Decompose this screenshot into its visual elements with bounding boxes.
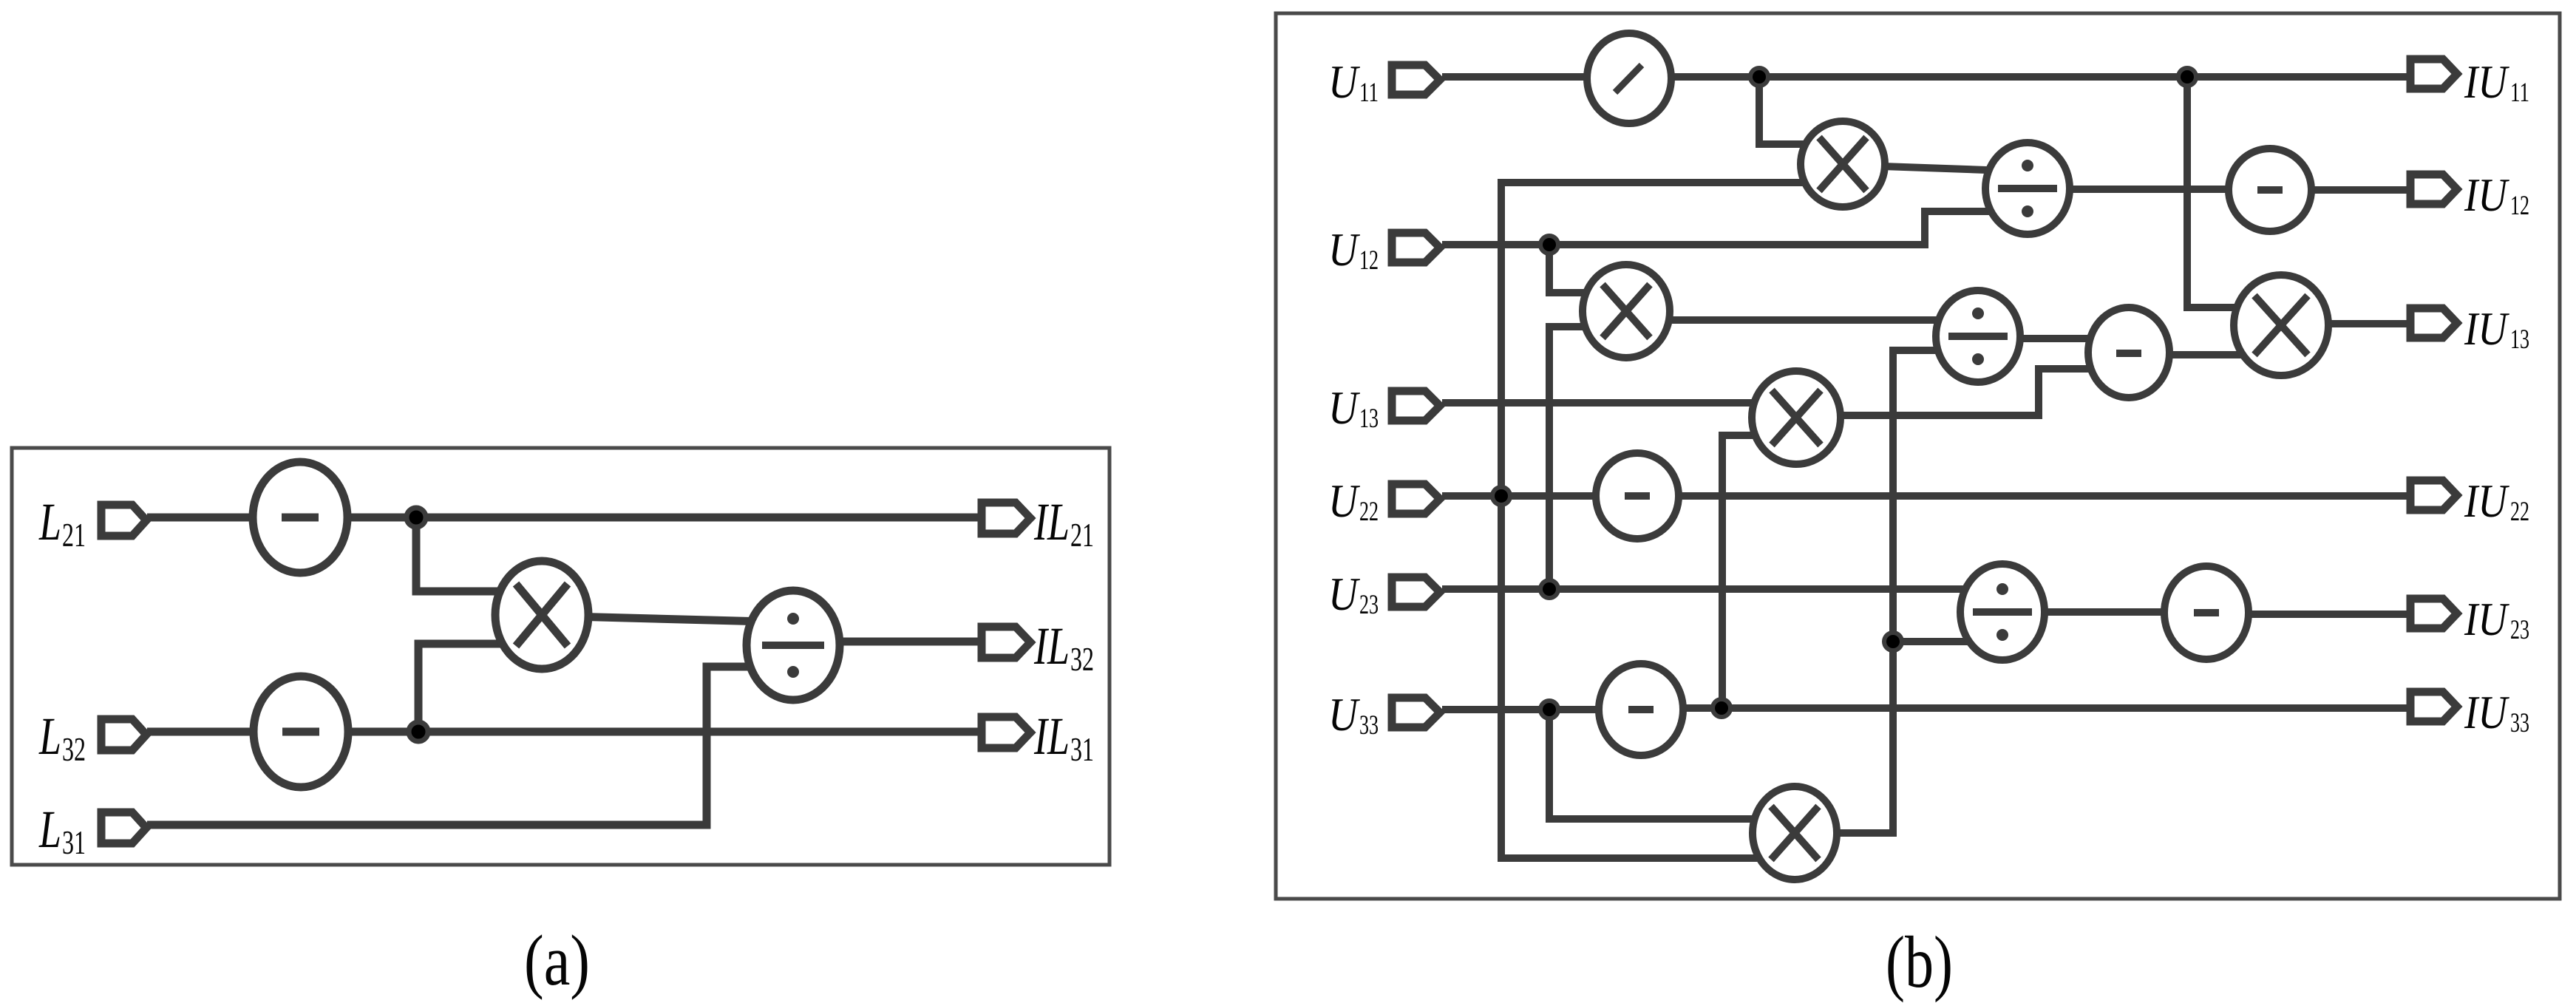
op minus B7	[2088, 307, 2169, 398]
label IU12	[2464, 169, 2529, 221]
input tag U33	[1392, 698, 1440, 727]
junction node U22	[1492, 487, 1510, 505]
junction node U23	[1540, 580, 1558, 598]
op multiplier B2	[1801, 121, 1885, 207]
output tag IU22	[2410, 480, 2457, 510]
wire U12 row with step to divider B3 lower input	[1442, 211, 2028, 245]
output tag IU12	[2410, 174, 2457, 204]
svg-text:23: 23	[1359, 590, 1379, 620]
junction node U11-1	[1750, 68, 1768, 86]
label U11	[1328, 55, 1379, 108]
svg-text:IL: IL	[1033, 616, 1070, 676]
svg-text:IL: IL	[1033, 707, 1070, 766]
junction node A	[407, 508, 426, 527]
op multiplier B5	[1583, 265, 1670, 358]
svg-text:IU: IU	[2464, 686, 2509, 738]
wire L32 row to IL31	[147, 728, 980, 736]
svg-text:11: 11	[2510, 78, 2529, 108]
wire U11 junction 2 down to multiplier B8 upper input	[2187, 77, 2281, 307]
svg-text:33: 33	[2510, 708, 2529, 738]
svg-text:21: 21	[1070, 517, 1094, 554]
label U33	[1328, 688, 1379, 741]
caption (b)	[1886, 921, 1953, 1003]
box (a) frame	[12, 448, 1109, 865]
input tag U23	[1392, 577, 1440, 607]
output tag IU33	[2410, 692, 2457, 721]
output tag IU11	[2410, 59, 2457, 89]
svg-text:12: 12	[2510, 191, 2529, 221]
op divider B3	[1985, 143, 2070, 234]
wire L31 row to divider lower input	[147, 667, 793, 825]
label U13	[1328, 381, 1379, 434]
wire U33 row to minus B11	[1442, 706, 1641, 713]
op divider A4	[747, 591, 840, 700]
input tag L21	[101, 505, 146, 536]
label IL32	[1033, 616, 1094, 678]
svg-text:U: U	[1328, 381, 1360, 434]
output tag IL32	[982, 627, 1030, 658]
svg-text:32: 32	[1070, 641, 1094, 678]
op minus A3	[254, 676, 348, 787]
label IL21	[1033, 492, 1094, 554]
wire U13 row to multiplier B9	[1442, 399, 1796, 407]
junction node U12	[1540, 236, 1558, 254]
op multiplier B8	[2234, 275, 2328, 375]
svg-text:U: U	[1328, 475, 1360, 527]
wire U12 junction down to multiplier B5 upper input	[1549, 245, 1626, 293]
wire multiplier B14 output column up to divider B6 lower input	[1795, 350, 1978, 833]
input tag L31	[101, 812, 146, 843]
op minus B11	[1599, 664, 1683, 755]
op reciprocal B1	[1587, 33, 1671, 123]
box (b) frame	[1276, 13, 2560, 899]
op minus B10	[1596, 453, 1679, 539]
wire U22 row to IU22	[1442, 492, 2410, 500]
input tag U22	[1392, 484, 1440, 514]
wire multiplier B9 output step to minus B7 lower input	[1796, 369, 2129, 415]
wire divider B12 to minus B13	[2002, 608, 2206, 616]
op multiplier B9	[1752, 371, 1841, 464]
wire minus B11 to IU33	[1641, 704, 2410, 712]
svg-text:IL: IL	[1033, 492, 1070, 551]
label IU33	[2464, 686, 2529, 738]
op divider B6	[1936, 290, 2020, 382]
op divider B12	[1960, 564, 2045, 660]
label U12	[1328, 223, 1379, 276]
wire junction on column to divider B12 lower input	[1893, 638, 2002, 645]
op multiplier A2	[495, 561, 588, 669]
input tag U12	[1392, 233, 1440, 262]
svg-text:23: 23	[2510, 615, 2529, 645]
wire divider B6 to minus B7	[1978, 335, 2129, 342]
wire U23 row to divider B12	[1442, 585, 2002, 593]
junction node U11-2	[2178, 68, 2196, 86]
output tag IL31	[982, 717, 1030, 748]
label IU23	[2464, 593, 2529, 645]
wire multiplier B2 to divider B3	[1843, 165, 2028, 171]
input tag L32	[101, 719, 146, 750]
wire minus B4 to IU12	[2270, 186, 2410, 194]
input tag U11	[1392, 65, 1440, 95]
svg-text:13: 13	[2510, 324, 2529, 355]
op minus B13	[2164, 566, 2249, 659]
wire junction B to multiplier lower input	[418, 644, 542, 732]
wire multiplier B5 to divider B6	[1626, 316, 1978, 324]
junction node IU33	[1713, 699, 1730, 717]
wire multiplier to divider	[542, 616, 793, 622]
svg-text:32: 32	[62, 731, 86, 768]
svg-text:11: 11	[1359, 78, 1379, 108]
wire U22 column: to multiplier B2 lower input and down to multiplier B14	[1501, 183, 1843, 858]
output tag IL21	[982, 503, 1030, 534]
svg-text:L: L	[38, 800, 61, 859]
label IU22	[2464, 475, 2529, 527]
label IU11	[2464, 55, 2529, 108]
svg-text:(b): (b)	[1886, 921, 1953, 1003]
label U22	[1328, 475, 1379, 527]
wire minus B7 to multiplier B8 lower input	[2129, 351, 2281, 358]
svg-text:12: 12	[1359, 245, 1379, 276]
svg-text:IU: IU	[2464, 169, 2509, 221]
svg-text:22: 22	[2510, 497, 2529, 527]
label L21	[38, 492, 86, 554]
op multiplier B14	[1753, 786, 1837, 880]
op minus A1	[253, 462, 347, 573]
wire U33 junction down to multiplier B14 upper input	[1549, 710, 1795, 819]
svg-text:31: 31	[62, 824, 86, 861]
input tag U13	[1392, 391, 1440, 421]
caption (a)	[524, 921, 590, 1001]
wire minus B13 to IU23	[2206, 611, 2410, 618]
op minus B4	[2229, 149, 2311, 231]
svg-text:(a): (a)	[524, 921, 590, 1001]
output tag IU13	[2410, 308, 2457, 338]
wire multiplier B8 to IU13	[2281, 320, 2410, 327]
wire U11 junction 1 to multiplier B2 upper input	[1759, 77, 1843, 144]
svg-text:U: U	[1328, 55, 1360, 108]
svg-text:L: L	[38, 707, 61, 766]
junction node column-B14	[1884, 633, 1902, 650]
junction node B	[409, 722, 428, 741]
svg-text:IU: IU	[2464, 593, 2509, 645]
output tag IU23	[2410, 599, 2457, 628]
svg-text:21: 21	[62, 517, 86, 554]
label IU13	[2464, 302, 2529, 355]
wire U11 row to IU11	[1442, 73, 2410, 81]
svg-text:IU: IU	[2464, 302, 2509, 355]
svg-text:31: 31	[1070, 731, 1094, 768]
svg-text:U: U	[1328, 688, 1360, 741]
label IL31	[1033, 707, 1094, 768]
svg-text:U: U	[1328, 568, 1360, 620]
svg-text:22: 22	[1359, 497, 1379, 527]
label L32	[38, 707, 86, 768]
svg-text:33: 33	[1359, 710, 1379, 741]
wire U23 junction up to multiplier B5 lower input	[1549, 327, 1626, 589]
svg-text:L: L	[38, 492, 61, 551]
wire divider to IL32	[793, 638, 980, 646]
wire L21 row	[147, 514, 980, 522]
wire junction A to multiplier upper input	[416, 517, 542, 591]
junction node U33	[1540, 701, 1558, 718]
svg-text:U: U	[1328, 223, 1360, 276]
wire IU33 junction up to multiplier B9 lower input	[1722, 435, 1796, 708]
svg-text:IU: IU	[2464, 55, 2509, 108]
label L31	[38, 800, 86, 861]
label U23	[1328, 568, 1379, 620]
svg-text:IU: IU	[2464, 475, 2509, 527]
svg-text:13: 13	[1359, 404, 1379, 434]
wire divider B3 to minus B4	[2028, 186, 2270, 193]
